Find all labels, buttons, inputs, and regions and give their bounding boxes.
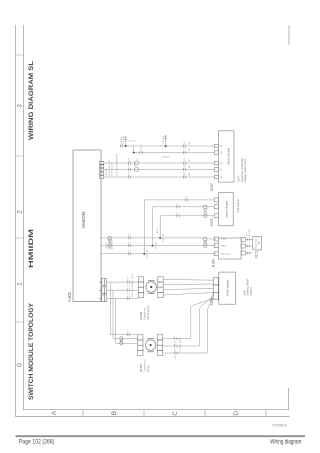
svg-text:0.5: 0.5: [129, 249, 131, 253]
node junction C546: [152, 245, 154, 247]
svg-text:Horn pad: Horn pad: [221, 253, 230, 256]
wire branch to S275 pin 1: [160, 216, 214, 238]
svg-text:GND: GND: [221, 246, 226, 248]
ticks on X115A out 1: [175, 337, 177, 340]
frame top ruler outer line: [15, 25, 17, 417]
ticks on X115B drop 2: [127, 289, 129, 292]
ticks on S275 branch 3: [185, 198, 187, 201]
A101 pin stubs inside box: [99, 282, 102, 298]
wire branch to S275 pin 3: [144, 200, 214, 254]
frame top ruler inner line: [22, 25, 24, 410]
svg-text:Switchs: Switchs: [250, 286, 253, 295]
svg-text:A101: A101: [67, 291, 72, 302]
wire X115B out 4: [163, 278, 214, 281]
svg-text:0.5: 0.5: [129, 233, 131, 237]
frame bottom-right segment: [288, 25, 290, 45]
frame left ruler inner line: [23, 409, 288, 411]
node junction on wire A5 upper: [125, 145, 127, 147]
wire A160 to S171 pin 3: [245, 239, 253, 241]
S257 entry ticks wire A1: [183, 176, 185, 179]
X115B connector circle: [146, 282, 157, 293]
wire X115B out 2: [163, 288, 214, 290]
A160 top pin boxes: [214, 237, 218, 256]
A101 connector pin pair 1 (to X115 harness): [102, 295, 107, 302]
svg-text:0.35: 0.35: [128, 329, 130, 334]
svg-text:C: C: [172, 411, 179, 416]
svg-text:0.35: 0.35: [129, 157, 131, 162]
svg-text:without airbag: without airbag: [147, 305, 150, 320]
svg-text:Switch Module: Switch Module: [226, 279, 230, 296]
node junction on wire A5 lower: [165, 145, 167, 147]
S257 entry ticks wire A2: [183, 168, 185, 171]
svg-text:Gear Lever: Gear Lever: [255, 238, 258, 249]
wire A101 pin to S257 pin A3: [104, 162, 215, 164]
svg-text:Unit: Unit: [258, 241, 261, 245]
S265 pin row: [213, 278, 218, 300]
ticks on X115B drop 1: [127, 281, 129, 284]
svg-text:0.35: 0.35: [184, 140, 186, 145]
wire stub lower right: [165, 135, 167, 146]
svg-text:0.5: 0.5: [177, 202, 179, 206]
svg-text:HMIIDM: HMIIDM: [81, 211, 86, 228]
X115A lower pin row: [157, 335, 162, 356]
wire to S257 pin A5: [120, 145, 214, 147]
connector ticks on wire A2: [128, 168, 130, 171]
svg-text:0.35: 0.35: [128, 276, 130, 281]
wire A101 pin to S257 pin A1: [104, 176, 215, 178]
connector ticks on wire mid-3: [128, 236, 130, 239]
rotated landscape wiring diagram: [16, 25, 290, 417]
X115B upper pin row: [138, 277, 143, 298]
svg-text:A: A: [51, 410, 58, 415]
wire link between nodes: [133, 146, 135, 153]
svg-text:HMIIDM: HMIIDM: [28, 229, 35, 268]
frame bottom-left end line: [288, 388, 290, 410]
svg-text:0.35 GY: 0.35 GY: [132, 273, 134, 281]
svg-text:0.35: 0.35: [129, 163, 131, 168]
svg-text:0.35 WS: 0.35 WS: [132, 281, 134, 289]
svg-text:Switch Module: Switch Module: [226, 148, 230, 165]
svg-text:10: 10: [137, 157, 139, 160]
node junction C545: [143, 253, 145, 255]
connector ticks on wire A5 top: [120, 145, 122, 148]
twisted pair symbol on S275 feed: [204, 205, 208, 218]
connector ticks on wire mid-2: [128, 244, 130, 247]
svg-text:D: D: [233, 411, 240, 416]
svg-text:airbag: airbag: [147, 365, 150, 372]
svg-text:A1: A1: [220, 176, 223, 178]
S275 pin boxes: [214, 198, 218, 218]
svg-text:0.35: 0.35: [184, 163, 186, 168]
S257 entry ticks wire A4: [183, 151, 185, 154]
svg-text:3: 3: [17, 104, 24, 108]
svg-text:A.1: A.1: [245, 232, 248, 236]
connector ticks on wire A3: [128, 162, 130, 165]
A160 bottom pin boxes: [241, 238, 245, 256]
twisted pair symbol on A160 feed lower: [204, 237, 208, 247]
wire A160 to S171 pin 2: [245, 245, 253, 247]
connector ticks on wire mid-1: [128, 252, 130, 255]
svg-text:C510 10: C510 10: [129, 141, 138, 143]
wire A4 upper ticks: [140, 151, 142, 154]
wire X115B drop 1: [107, 281, 138, 283]
svg-text:S616: S616: [157, 228, 159, 234]
svg-text:A6: A6: [220, 145, 223, 147]
svg-text:0.35: 0.35: [175, 340, 177, 345]
svg-text:A3: A3: [220, 162, 223, 164]
A101 connector pin pair 3 (to X115 harness): [102, 279, 107, 286]
module box S257 Switch Module: [218, 131, 234, 182]
wire X115B out 3: [163, 283, 214, 286]
wire X115A run 1: [111, 282, 138, 335]
S257 pin boxes: [214, 144, 218, 179]
wire A101 pin to S257 pin A2: [104, 169, 215, 171]
svg-text:0.5: 0.5: [186, 195, 188, 199]
svg-text:X115A: X115A: [139, 364, 143, 372]
module box A160: [218, 238, 241, 259]
wire X115A out 2: [163, 295, 214, 346]
module box S265 Switch Module: [219, 272, 236, 304]
svg-text:0.35 GY: 0.35 GY: [140, 143, 142, 151]
svg-text:A2: A2: [220, 168, 223, 170]
svg-text:0.35: 0.35: [184, 171, 186, 176]
svg-text:C547 4B: C547 4B: [163, 234, 165, 242]
svg-text:Seat module: Seat module: [237, 199, 240, 213]
node junction C547: [159, 237, 161, 239]
svg-text:0.35 WS: 0.35 WS: [116, 153, 118, 161]
wire X115B drop 2: [107, 289, 138, 291]
svg-text:1: 1: [17, 282, 24, 286]
wire X115B out 1: [163, 293, 214, 296]
svg-text:0.35 VO: 0.35 VO: [163, 135, 165, 143]
svg-text:0.35: 0.35: [128, 284, 130, 289]
ticks on S275 branch 2: [177, 205, 179, 208]
wire to S257 pin A4: [134, 152, 215, 154]
connector ticks on wire A1: [128, 176, 130, 179]
svg-text:A160: A160: [211, 259, 215, 267]
svg-text:C546 4B: C546 4B: [162, 157, 171, 159]
svg-text:0.35 GN: 0.35 GN: [132, 289, 134, 297]
module box A101 HMIIDM: [73, 150, 101, 302]
svg-text:S275: S275: [210, 218, 214, 226]
A101 connector pin pair 2 (to X115 harness): [102, 287, 107, 294]
wire A101 to A160 pin 1: [101, 253, 216, 255]
inline connector C510 on wire A2: [134, 167, 138, 171]
wire X115B drop 3: [107, 297, 138, 299]
frame left ruler outer line: [16, 416, 290, 418]
wire X115A run 3: [116, 298, 138, 343]
svg-text:PC35_DIL_J10: PC35_DIL_J10: [109, 160, 111, 176]
svg-text:0.35 SB: 0.35 SB: [180, 345, 182, 353]
wire A101 to A160 pin 3: [101, 238, 216, 239]
X115A upper pin row: [138, 335, 143, 356]
X115B lower pin row: [158, 277, 163, 298]
svg-text:0.35 GN: 0.35 GN: [123, 136, 125, 144]
svg-text:0.35 BN: 0.35 BN: [180, 337, 182, 345]
svg-text:A4: A4: [220, 151, 223, 153]
svg-text:C510: C510: [135, 161, 137, 167]
twisted pair symbol on X115A drops: [120, 337, 123, 345]
S257 entry ticks wire A3: [183, 162, 185, 165]
svg-text:0.35: 0.35: [184, 157, 186, 162]
module box S171 Gear Lever Unit: [253, 237, 262, 250]
svg-text:Contact reel: Contact reel: [143, 359, 146, 372]
svg-text:Display Control Panel: Display Control Panel: [244, 159, 247, 182]
wire X115A out 1: [163, 299, 214, 339]
svg-text:4B: 4B: [189, 142, 191, 145]
module box S275 Switch Module: [218, 193, 233, 226]
svg-text:Wiring diagram: Wiring diagram: [270, 439, 301, 445]
svg-text:S257: S257: [210, 183, 214, 191]
svg-text:WIRING DIAGRAM SL: WIRING DIAGRAM SL: [28, 61, 35, 140]
svg-text:DEV1: DEV1: [221, 239, 227, 241]
svg-text:0.35 BN: 0.35 BN: [121, 137, 123, 145]
svg-text:4B: 4B: [189, 173, 191, 176]
wire branch to S275 pin 2: [153, 207, 215, 246]
svg-text:4B: 4B: [189, 159, 191, 162]
wire stub upper right: [125, 137, 127, 147]
svg-text:B.03, B.6, A.7: B.03, B.6, A.7: [111, 161, 114, 175]
svg-text:S171: S171: [255, 250, 259, 258]
svg-text:SWITCH MODULE TOPOLOGY: SWITCH MODULE TOPOLOGY: [28, 302, 35, 400]
svg-text:C545 4B: C545 4B: [147, 250, 149, 258]
svg-text:C546 4B: C546 4B: [155, 242, 157, 250]
svg-text:T1095816: T1095816: [271, 423, 287, 427]
X115A connector circle: [145, 340, 156, 351]
svg-text:Switch Module: Switch Module: [224, 200, 228, 217]
S257 entry ticks wire A5: [183, 145, 185, 148]
svg-text:0.35: 0.35: [128, 292, 130, 297]
svg-text:4B: 4B: [189, 148, 191, 151]
svg-text:4B: 4B: [189, 165, 191, 168]
ticks on S275 branch 1: [177, 214, 179, 217]
twisted pair symbol on A160 feed upper: [108, 236, 112, 247]
ticks on X115A out 3: [175, 352, 177, 355]
svg-text:B.2, A.3: B.2, A.3: [248, 228, 251, 236]
svg-text:X115B: X115B: [139, 312, 143, 320]
wire A101 to A160 pin 2: [101, 245, 216, 247]
wire X115A run 2: [113, 290, 138, 338]
svg-text:2: 2: [17, 210, 24, 214]
svg-text:0.5: 0.5: [177, 211, 179, 215]
frame top ruler zone ticks: [16, 55, 24, 322]
svg-text:B: B: [111, 411, 118, 415]
frame left ruler zone ticks: [83, 410, 266, 417]
svg-text:S265: S265: [210, 298, 214, 306]
wire A160 to S171 pin 1: [245, 252, 253, 254]
ticks on S171 feeds: [247, 252, 249, 255]
A101 pin boxes for S257 wires: [100, 161, 104, 178]
svg-text:0.35: 0.35: [175, 355, 177, 360]
ticks on X115A out 2: [175, 345, 177, 348]
wire X115A out 3: [163, 292, 214, 354]
footer separator line: [16, 435, 306, 437]
svg-text:0.35: 0.35: [184, 147, 186, 152]
svg-text:0: 0: [17, 363, 24, 367]
ticks on X115B drop 3: [127, 297, 129, 300]
inline connector C510 on wire A3: [134, 161, 138, 165]
svg-text:Contact reel: Contact reel: [143, 307, 146, 320]
node junction on wire A4: [133, 152, 135, 154]
svg-text:0.5: 0.5: [129, 241, 131, 245]
svg-text:0.35: 0.35: [129, 171, 131, 176]
svg-text:Page 102 (268): Page 102 (268): [19, 439, 55, 445]
ticks on X115A drop 1: [127, 333, 129, 336]
